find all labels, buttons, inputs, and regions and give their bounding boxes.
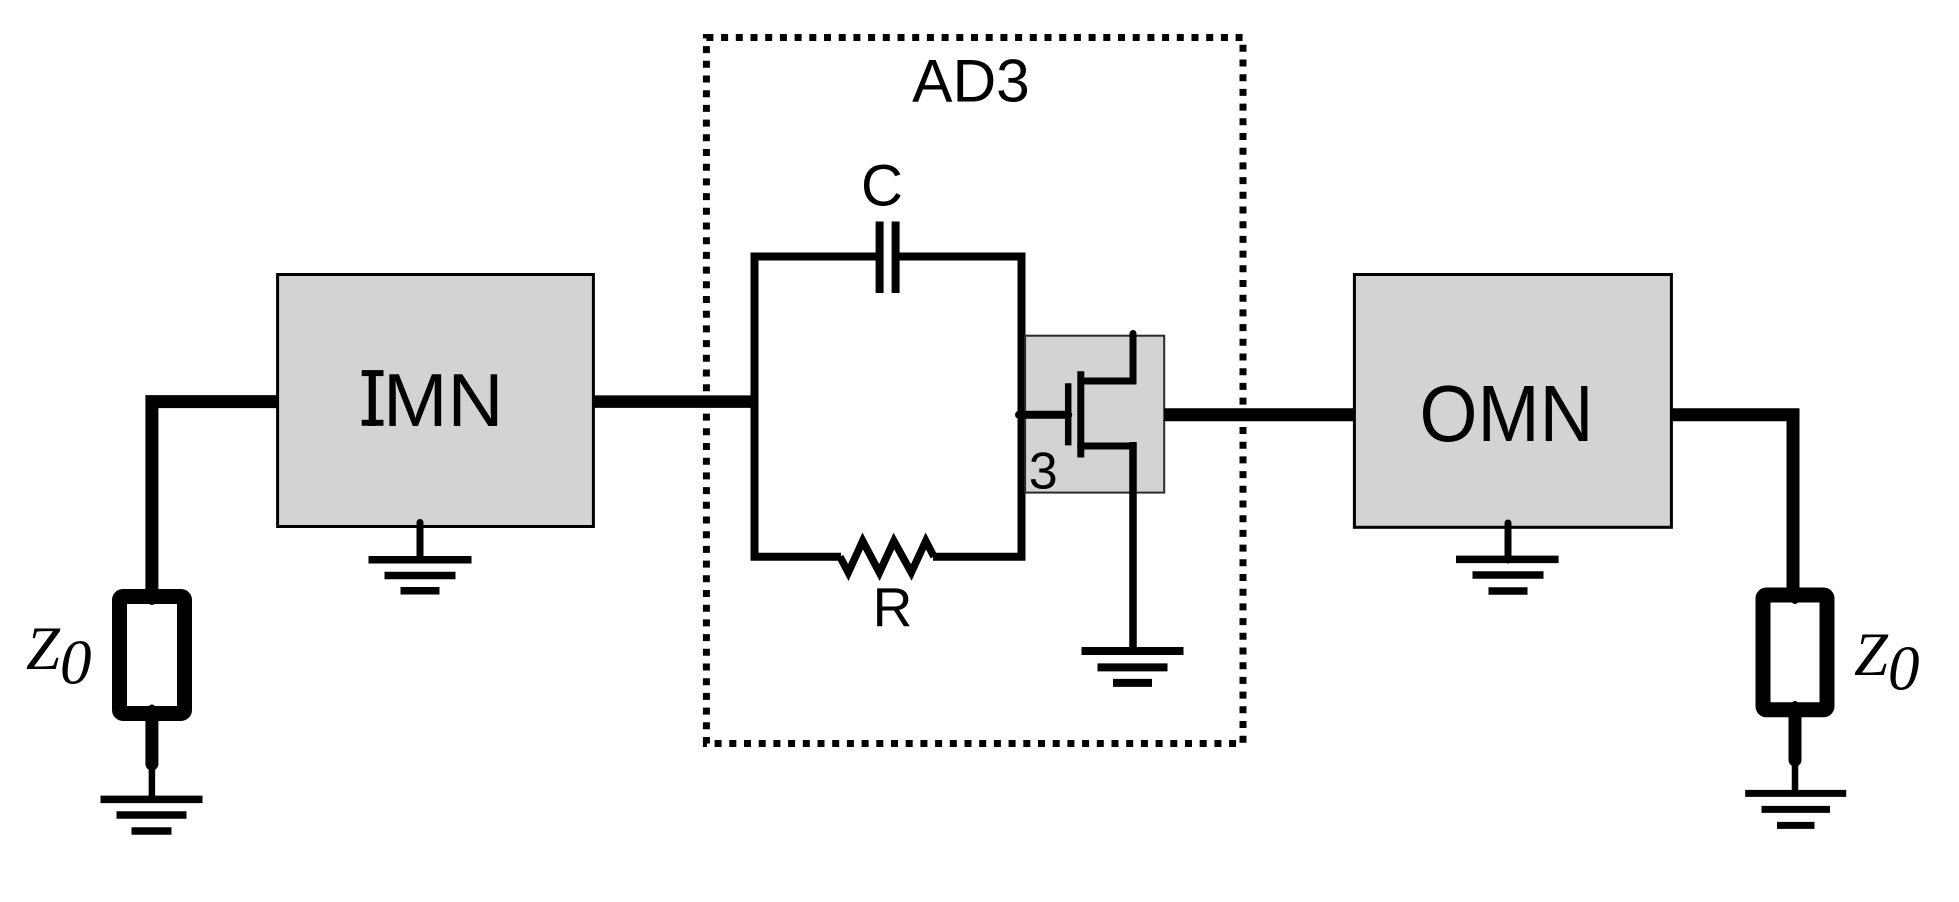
svg-text:AD3: AD3 [912, 47, 1030, 115]
wire transistor to OMN [1164, 408, 1356, 421]
wire source to ground [1129, 442, 1137, 651]
dotted box AD3 [706, 38, 1243, 744]
transistor channel bar [1077, 371, 1084, 457]
ground right [1745, 793, 1846, 825]
wire left L from Z0 to IMN [152, 402, 278, 600]
svg-text:C: C [861, 154, 903, 219]
node stub top of right Z0 [1792, 588, 1799, 601]
capacitor C plates [876, 222, 884, 294]
ground left [101, 799, 203, 831]
wire IMN to RC network [593, 395, 758, 408]
resistor Z0 (left) [120, 597, 185, 714]
resistor Z0 (right) [1763, 595, 1827, 710]
wire RC loop with resistor R zigzag [755, 257, 1022, 557]
ground under transistor [1082, 651, 1184, 683]
ground under OMN [1505, 523, 1512, 560]
serif bars on I of IMN [362, 370, 384, 376]
transistor gate wire [1019, 411, 1068, 419]
node stub bottom of right Z0 [1792, 705, 1799, 718]
svg-text:OMN: OMN [1420, 369, 1594, 458]
block OMN [1354, 275, 1671, 528]
block IMN [278, 275, 594, 527]
wire Z0 right bottom lead [1789, 717, 1802, 760]
svg-text:R: R [873, 576, 913, 638]
wire Z0 left bottom lead [145, 721, 158, 764]
node stub top of left Z0 [148, 589, 155, 602]
ground under IMN [417, 523, 424, 560]
transistor gate bar [1065, 383, 1072, 445]
transistor source wire [1077, 443, 1133, 450]
transistor Q1 body box [1025, 336, 1164, 493]
transistor drain wire [1081, 334, 1133, 382]
svg-text:3: 3 [1029, 443, 1058, 501]
wire OMN to right Z0 [1671, 415, 1793, 600]
node stub bottom of left Z0 [148, 708, 155, 721]
